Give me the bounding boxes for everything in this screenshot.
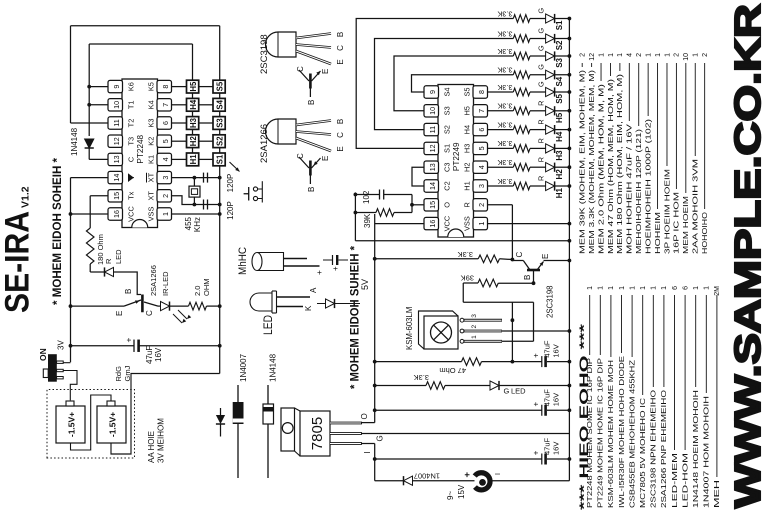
svg-text:2: 2 bbox=[161, 194, 170, 198]
wire key column K4 bbox=[172, 104, 187, 106]
svg-text:RdG: RdG bbox=[114, 366, 123, 382]
svg-text:+: + bbox=[532, 450, 541, 455]
svg-text:1: 1 bbox=[617, 53, 624, 57]
svg-text:C: C bbox=[127, 156, 136, 162]
svg-text:16V: 16V bbox=[552, 393, 561, 406]
svg-text:C: C bbox=[296, 66, 305, 72]
svg-text:G: G bbox=[537, 81, 546, 87]
svg-text:15: 15 bbox=[428, 201, 437, 209]
svg-text:XT: XT bbox=[147, 191, 156, 201]
wire R-LED to base bbox=[114, 272, 142, 295]
transistor Q2 2SC3198 NPN bbox=[533, 270, 535, 283]
wire 47 Ohm chain bbox=[375, 361, 462, 363]
wire key column K1 bbox=[172, 158, 187, 160]
svg-text:39K: 39K bbox=[363, 213, 372, 228]
LED H4 R bbox=[530, 129, 546, 131]
svg-text:-1.5V+: -1.5V+ bbox=[67, 412, 77, 437]
LED symbol legend bbox=[317, 303, 325, 305]
svg-text:1: 1 bbox=[704, 286, 711, 290]
svg-text:MEHOIHOHEIH 120P (121): MEHOIHOHEIH 120P (121) bbox=[636, 129, 643, 254]
svg-text:2SC3198: 2SC3198 bbox=[546, 285, 555, 318]
connector DC jack bbox=[475, 473, 490, 490]
LED S3 G bbox=[530, 55, 546, 57]
wire S4 route bbox=[412, 75, 514, 92]
svg-text:AA HOIE: AA HOIE bbox=[147, 431, 156, 463]
wire battery series link bbox=[71, 395, 112, 450]
LED chain S4 resistor 3.3K bbox=[513, 71, 530, 79]
switch S5 tact key bbox=[213, 80, 225, 93]
svg-text:1N4148 HOEIM MOHOIH: 1N4148 HOEIM MOHOIH bbox=[693, 390, 700, 508]
svg-text:T2: T2 bbox=[127, 119, 136, 128]
resonator X1 455KHz bbox=[189, 186, 200, 197]
wire osc top bus bbox=[354, 192, 356, 240]
wire 7805 ground leg bbox=[362, 433, 569, 435]
LED chain S3 resistor 3.3K bbox=[513, 52, 530, 60]
svg-text:MEM 180 Ohm (HOM, EIM, HOM, M): MEM 180 Ohm (HOM, EIM, HOM, M) bbox=[617, 74, 624, 254]
resistor 39K osc bbox=[355, 212, 376, 214]
svg-text:K1: K1 bbox=[147, 155, 156, 164]
wire transmitter common bus bbox=[219, 26, 221, 374]
resistor 180 Ohm bbox=[86, 228, 94, 264]
svg-text:16V: 16V bbox=[552, 442, 561, 455]
LED S1 G bbox=[530, 18, 546, 20]
svg-text:+: + bbox=[462, 472, 473, 478]
svg-text:4: 4 bbox=[161, 157, 170, 161]
svg-text:1: 1 bbox=[645, 53, 652, 57]
svg-text:K2: K2 bbox=[147, 137, 156, 146]
wire key column K5 bbox=[172, 86, 187, 88]
svg-text:T1: T1 bbox=[127, 100, 136, 109]
svg-text:R: R bbox=[537, 138, 546, 143]
overline XT pin3 bbox=[146, 173, 148, 183]
svg-text:S3: S3 bbox=[443, 106, 452, 115]
svg-text:S2: S2 bbox=[555, 40, 564, 50]
svg-text:2.0: 2.0 bbox=[193, 286, 202, 296]
svg-text:2SC3198 NPN EHEMEIHO: 2SC3198 NPN EHEMEIHO bbox=[651, 389, 658, 508]
svg-text:KHz: KHz bbox=[193, 217, 202, 232]
svg-text:2: 2 bbox=[471, 325, 478, 329]
svg-text:10: 10 bbox=[683, 53, 690, 61]
LED chain H3 resistor 3.3K bbox=[488, 147, 514, 149]
svg-text:9: 9 bbox=[112, 85, 121, 89]
switch S3 tact key bbox=[213, 117, 225, 130]
svg-text:1N4007 HOM MOHOIH: 1N4007 HOM MOHOIH bbox=[704, 396, 711, 508]
transistor PNP symbol legend bbox=[309, 176, 311, 185]
svg-text:E: E bbox=[321, 69, 330, 74]
wire 3V rail bbox=[70, 178, 72, 363]
capacitor C3 120P bbox=[199, 177, 204, 179]
svg-text:1: 1 bbox=[640, 286, 647, 290]
svg-text:R: R bbox=[537, 101, 546, 106]
svg-text:H4: H4 bbox=[555, 131, 564, 142]
wire S1 route bbox=[356, 19, 513, 149]
wire pin1 column bbox=[172, 213, 220, 215]
capacitor C2 120P bbox=[199, 204, 204, 206]
switch S1 tact key bbox=[213, 153, 225, 166]
switch H5 tact key bbox=[187, 80, 199, 93]
wire pin3 column bbox=[172, 177, 220, 179]
svg-text:47uF: 47uF bbox=[145, 346, 154, 364]
svg-text:8: 8 bbox=[161, 85, 170, 89]
node emitter junction bbox=[69, 304, 73, 308]
wire battery minus bbox=[111, 374, 220, 455]
diode 1N4148 pictorial bbox=[267, 424, 269, 478]
svg-text:16V: 16V bbox=[154, 347, 163, 362]
svg-text:O: O bbox=[360, 413, 369, 419]
svg-text:R: R bbox=[537, 119, 546, 124]
svg-text:9~: 9~ bbox=[446, 491, 455, 500]
svg-text:3.3K: 3.3K bbox=[497, 120, 512, 129]
svg-text:S3: S3 bbox=[555, 57, 564, 67]
svg-text:K: K bbox=[304, 305, 313, 311]
svg-text:1: 1 bbox=[161, 212, 170, 216]
svg-text:5V: 5V bbox=[360, 279, 370, 290]
resistor 2.0 Ohm bbox=[189, 302, 207, 310]
svg-text:13: 13 bbox=[112, 155, 121, 163]
svg-text:2SC3198: 2SC3198 bbox=[259, 34, 270, 74]
wire pin2 column bbox=[172, 196, 220, 205]
LED H3 R bbox=[530, 147, 546, 149]
svg-text:15: 15 bbox=[112, 192, 121, 200]
tact switch legend symbol bbox=[261, 181, 263, 202]
svg-text:G: G bbox=[504, 387, 510, 396]
svg-text:3.3K: 3.3K bbox=[497, 139, 512, 148]
svg-text:3P HOEIIM HOEIM: 3P HOEIIM HOEIM bbox=[664, 169, 671, 254]
wire C-T1 link with diode bbox=[88, 148, 90, 159]
svg-text:H1: H1 bbox=[555, 187, 564, 198]
svg-text:5: 5 bbox=[477, 146, 486, 150]
svg-text:-1.5V+: -1.5V+ bbox=[108, 412, 118, 437]
svg-text:2: 2 bbox=[636, 53, 643, 57]
svg-text:2AA MOHOIH 3VM: 2AA MOHOIH 3VM bbox=[693, 159, 700, 254]
tact switch legend arrow bbox=[230, 162, 240, 172]
svg-text:I: I bbox=[363, 451, 372, 453]
svg-text:1: 1 bbox=[664, 53, 671, 57]
wire KSM VCC node bbox=[511, 302, 513, 361]
transistor 2SA1266 TO-92 pictorial bbox=[266, 119, 297, 144]
svg-text:I: I bbox=[495, 473, 502, 475]
svg-text:12: 12 bbox=[589, 53, 596, 61]
svg-text:S4: S4 bbox=[555, 76, 564, 86]
svg-text:120P: 120P bbox=[226, 174, 235, 193]
svg-text:2: 2 bbox=[477, 203, 486, 207]
switch ON slide switch bbox=[48, 354, 57, 382]
wire pin14 riser bbox=[71, 177, 109, 179]
svg-text:S1: S1 bbox=[443, 144, 452, 153]
svg-text:MEM 2.0 Ohm (MEM, HOM, M, M): MEM 2.0 Ohm (MEM, HOM, M, M) bbox=[598, 84, 605, 254]
svg-text:C: C bbox=[336, 132, 345, 138]
resistor 3.3K power LED bbox=[426, 382, 445, 390]
svg-text:LED-HOM: LED-HOM bbox=[682, 453, 689, 508]
svg-text:+: + bbox=[124, 338, 134, 343]
svg-text:3V MEIHOM: 3V MEIHOM bbox=[157, 418, 166, 463]
svg-text:B: B bbox=[523, 275, 532, 280]
capacitor C4 47uF input bbox=[375, 458, 542, 460]
node 47uF junction bbox=[69, 344, 73, 348]
wire R line from pin2 bbox=[511, 205, 513, 260]
svg-text:O: O bbox=[443, 202, 452, 208]
svg-text:5: 5 bbox=[161, 139, 170, 143]
electrolytic cap symbol legend bbox=[323, 259, 333, 261]
wire pin9 riser bbox=[89, 86, 108, 88]
svg-text:2SA1266: 2SA1266 bbox=[149, 265, 158, 296]
svg-text:12: 12 bbox=[112, 137, 121, 145]
wire 5V rail bbox=[374, 214, 376, 423]
svg-text:3V: 3V bbox=[57, 340, 66, 350]
svg-text:6: 6 bbox=[682, 286, 689, 290]
KSM module legs bbox=[460, 339, 464, 343]
svg-text:WWW.SAMPLE.CO.KR: WWW.SAMPLE.CO.KR bbox=[727, 4, 768, 508]
svg-text:K4: K4 bbox=[147, 100, 156, 109]
svg-text:2M: 2M bbox=[714, 286, 721, 296]
svg-text:47 Ohm: 47 Ohm bbox=[439, 366, 466, 375]
wire 7805 input leg bbox=[362, 443, 375, 445]
svg-text:3.3K: 3.3K bbox=[497, 83, 512, 92]
svg-text:7805: 7805 bbox=[309, 417, 326, 450]
svg-text:455: 455 bbox=[184, 216, 193, 230]
svg-text:10: 10 bbox=[428, 107, 437, 115]
svg-text:47uF: 47uF bbox=[543, 340, 552, 358]
svg-text:IWL-I5R30F MOHEM HOHO DIODE: IWL-I5R30F MOHEM HOHO DIODE bbox=[619, 356, 626, 508]
svg-text:H2: H2 bbox=[463, 162, 472, 171]
svg-text:VCC: VCC bbox=[443, 215, 452, 231]
svg-text:16V: 16V bbox=[552, 344, 561, 357]
svg-text:S2: S2 bbox=[443, 125, 452, 134]
svg-text:3: 3 bbox=[161, 176, 170, 180]
wire pin10 riser bbox=[89, 104, 108, 106]
svg-text:H2: H2 bbox=[189, 136, 198, 147]
resistor R 39K receiver bbox=[462, 283, 464, 302]
svg-text:H3: H3 bbox=[463, 144, 472, 153]
svg-text:+: + bbox=[532, 401, 541, 406]
switch H3 tact key bbox=[187, 117, 199, 130]
svg-text:C: C bbox=[296, 153, 305, 159]
svg-text:13: 13 bbox=[428, 163, 437, 171]
svg-text:2: 2 bbox=[580, 53, 587, 57]
svg-text:1N4148: 1N4148 bbox=[70, 127, 79, 156]
capacitor C1 47uF 16V bbox=[133, 340, 135, 352]
svg-text:1: 1 bbox=[598, 286, 605, 290]
svg-text:S5: S5 bbox=[463, 87, 472, 96]
svg-text:CSB455EB MEHOHEHOM 455KHZ: CSB455EB MEHOHEHOM 455KHZ bbox=[629, 359, 636, 508]
wire 47uF C1 top lead bbox=[71, 345, 134, 347]
svg-text:3: 3 bbox=[477, 184, 486, 188]
svg-text:R: R bbox=[537, 176, 546, 181]
svg-text:6: 6 bbox=[161, 121, 170, 125]
LED IR-LED transmitter bbox=[161, 302, 170, 311]
svg-text:R: R bbox=[537, 157, 546, 162]
svg-text:14: 14 bbox=[112, 174, 121, 182]
svg-text:B: B bbox=[307, 187, 316, 192]
battery holder dotted box bbox=[47, 390, 135, 459]
svg-text:H4: H4 bbox=[463, 125, 472, 134]
svg-text:SE-IRA: SE-IRA bbox=[0, 211, 37, 313]
svg-text:G: G bbox=[376, 435, 385, 441]
wire osc bottom jog bbox=[411, 195, 413, 213]
svg-text:16P IC HOM: 16P IC HOM bbox=[674, 192, 681, 254]
svg-text:S1: S1 bbox=[555, 20, 564, 30]
svg-text:A: A bbox=[309, 287, 318, 293]
svg-text:V1.2: V1.2 bbox=[20, 186, 32, 208]
transistor 2SC3198 TO-92 pictorial bbox=[266, 32, 297, 57]
svg-text:R: R bbox=[463, 202, 472, 207]
switch H1 tact key bbox=[187, 153, 199, 166]
IC U2 PT2249 remote receiver bbox=[438, 85, 474, 238]
capacitor 102 osc bbox=[355, 194, 379, 196]
capacitor C5 47uF output bbox=[375, 409, 542, 411]
LED H5 R bbox=[530, 110, 546, 112]
svg-text:1N4007: 1N4007 bbox=[239, 353, 248, 382]
svg-text:KSM-603LM MOHEM HOME MOH: KSM-603LM MOHEM HOME MOH bbox=[608, 360, 615, 508]
LED H1 R bbox=[530, 185, 546, 187]
svg-text:HOHEIM: HOHEIM bbox=[655, 212, 662, 254]
regulator U3 7805 pictorial bbox=[281, 408, 295, 451]
svg-text:LED: LED bbox=[511, 387, 526, 396]
wire power LED chain bbox=[375, 385, 426, 387]
wire switch to rail bbox=[63, 362, 70, 364]
svg-text:8: 8 bbox=[477, 90, 486, 94]
wire switch to battery bbox=[63, 371, 77, 401]
switch S2 tact key bbox=[213, 135, 225, 148]
svg-text:11: 11 bbox=[112, 119, 121, 126]
svg-text:3.3K: 3.3K bbox=[414, 373, 429, 382]
svg-text:H4: H4 bbox=[189, 99, 198, 110]
svg-text:PT2249: PT2249 bbox=[452, 142, 461, 171]
svg-text:H2: H2 bbox=[555, 169, 564, 180]
node VCC riser junction bbox=[69, 212, 73, 216]
svg-text:H1: H1 bbox=[463, 181, 472, 190]
svg-text:GmJ: GmJ bbox=[123, 365, 132, 381]
svg-text:MEM HOEIM: MEM HOEIM bbox=[683, 196, 690, 254]
svg-text:+: + bbox=[314, 270, 324, 275]
svg-text:XT: XT bbox=[147, 172, 156, 182]
svg-text:+: + bbox=[532, 353, 541, 358]
svg-text:* MOHEM EIDOH SOHEIH *: * MOHEM EIDOH SOHEIH * bbox=[52, 157, 64, 305]
svg-text:PT2249 MOHEM HOME IC 16P DIP: PT2249 MOHEM HOME IC 16P DIP bbox=[598, 358, 605, 508]
wire H-row bus bbox=[192, 44, 194, 159]
capacitor C6 47uF KSM bbox=[512, 361, 541, 363]
svg-text:HOHOIHO: HOHOIHO bbox=[702, 211, 709, 254]
LED R-LED red indicator bbox=[104, 267, 106, 276]
svg-text:S1: S1 bbox=[216, 154, 225, 164]
svg-text:S4: S4 bbox=[443, 87, 452, 96]
svg-text:C3: C3 bbox=[443, 162, 452, 171]
svg-text:6: 6 bbox=[672, 286, 679, 290]
wire T2 rail segment bbox=[70, 26, 72, 123]
svg-text:4: 4 bbox=[627, 53, 634, 57]
svg-text:IR-LED: IR-LED bbox=[161, 271, 170, 296]
svg-text:1N4148: 1N4148 bbox=[269, 353, 278, 382]
IC U4 KSM-603LM IR receiver module bbox=[419, 311, 459, 349]
svg-text:E: E bbox=[321, 156, 330, 161]
svg-text:1: 1 bbox=[471, 335, 478, 339]
svg-text:MC7805 5V MOHEHO IC: MC7805 5V MOHEHO IC bbox=[640, 398, 647, 508]
svg-text:3.3K: 3.3K bbox=[497, 177, 512, 186]
diode 1N4007 pictorial bbox=[237, 424, 239, 478]
svg-text:HOEIMHOHEIH 1000P (102): HOEIMHOHEIH 1000P (102) bbox=[645, 119, 652, 254]
svg-text:H3: H3 bbox=[189, 117, 198, 128]
svg-text:C2: C2 bbox=[443, 181, 452, 190]
svg-text:1: 1 bbox=[693, 286, 700, 290]
svg-text:LED: LED bbox=[263, 315, 275, 335]
svg-text:H5: H5 bbox=[189, 81, 198, 92]
svg-text:H5: H5 bbox=[463, 106, 472, 115]
wire to R-LED bbox=[90, 271, 104, 273]
wire pin11 riser bbox=[71, 122, 109, 124]
wire pin16 riser bbox=[375, 223, 424, 225]
svg-text:C: C bbox=[145, 310, 154, 316]
svg-text:MEM 47 Ohm (HOM, MEM, HOM, M): MEM 47 Ohm (HOM, MEM, HOM, M) bbox=[608, 79, 615, 254]
svg-text:1: 1 bbox=[608, 286, 615, 290]
wire ground bus bbox=[568, 19, 570, 481]
switch H4 tact key bbox=[187, 98, 199, 111]
svg-text:K3: K3 bbox=[147, 118, 156, 127]
node 2.0 Ohm to bus bbox=[218, 304, 222, 308]
wire key column K3 bbox=[172, 122, 187, 124]
LED pictorial bbox=[250, 293, 272, 311]
battery cell B2 1.5V bbox=[97, 406, 126, 443]
svg-text:S5: S5 bbox=[216, 81, 225, 91]
svg-text:H5: H5 bbox=[555, 112, 564, 123]
svg-text:39K: 39K bbox=[461, 274, 474, 283]
svg-text:1N4007: 1N4007 bbox=[414, 472, 440, 481]
svg-text:MEM 39K (MOHEM, EIM, MOHEM, M): MEM 39K (MOHEM, EIM, MOHEM, M) bbox=[580, 70, 587, 254]
svg-text:3.3K: 3.3K bbox=[497, 158, 512, 167]
svg-text:1: 1 bbox=[661, 286, 668, 290]
svg-text:Tx: Tx bbox=[127, 191, 136, 200]
diode D2 1N4007 rectifier bbox=[403, 476, 405, 485]
svg-text:VSS: VSS bbox=[147, 207, 156, 222]
wire S-row loop vertical bbox=[71, 25, 220, 27]
svg-text:K6: K6 bbox=[127, 82, 136, 91]
switch S4 tact key bbox=[213, 98, 225, 111]
wire pin13 riser bbox=[89, 158, 108, 160]
pin14 antenna mark bbox=[128, 174, 134, 181]
svg-text:1: 1 bbox=[651, 286, 658, 290]
LED chain H5 resistor 3.3K bbox=[488, 110, 514, 112]
node collector R junction bbox=[511, 258, 515, 262]
wire S2 route bbox=[375, 39, 514, 130]
svg-text:H3: H3 bbox=[555, 150, 564, 161]
wire DC input line bbox=[375, 480, 403, 482]
svg-text:B: B bbox=[124, 289, 133, 294]
svg-text:ON: ON bbox=[38, 348, 48, 361]
switch H2 tact key bbox=[187, 135, 199, 148]
svg-text:1: 1 bbox=[655, 53, 662, 57]
svg-text:12: 12 bbox=[428, 144, 437, 152]
wire 47uF C1 bottom lead bbox=[139, 345, 220, 347]
svg-text:3.3K: 3.3K bbox=[497, 66, 512, 75]
transistor NPN symbol legend bbox=[309, 89, 311, 98]
svg-text:LED-MEM: LED-MEM bbox=[672, 453, 679, 508]
svg-text:1: 1 bbox=[629, 286, 636, 290]
svg-text:47uF: 47uF bbox=[543, 389, 552, 407]
svg-text:1: 1 bbox=[619, 286, 626, 290]
svg-text:PT2248 MOHEM SOME IC 16P DIP: PT2248 MOHEM SOME IC 16P DIP bbox=[587, 358, 594, 508]
svg-text:E: E bbox=[336, 59, 345, 64]
svg-text:LED: LED bbox=[114, 249, 123, 264]
LED chain H2 resistor 3.3K bbox=[488, 166, 514, 168]
svg-text:1: 1 bbox=[608, 53, 615, 57]
svg-text:3.3K: 3.3K bbox=[497, 9, 512, 18]
svg-text:6: 6 bbox=[477, 128, 486, 132]
wire pin15 riser bbox=[412, 204, 424, 206]
wire Tx line from pin15 bbox=[90, 195, 108, 197]
wire KSM out node bbox=[463, 301, 533, 303]
LED S2 G bbox=[530, 38, 546, 40]
svg-text:T3: T3 bbox=[127, 137, 136, 146]
svg-text:2: 2 bbox=[702, 53, 709, 57]
